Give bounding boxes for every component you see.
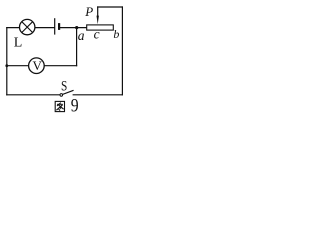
svg-text:P: P <box>84 4 93 19</box>
svg-text:S: S <box>61 77 67 94</box>
svg-text:V: V <box>33 58 43 73</box>
svg-text:L: L <box>14 36 23 51</box>
svg-text:b: b <box>113 27 119 41</box>
svg-text:c: c <box>94 27 100 42</box>
svg-text:9: 9 <box>71 95 79 115</box>
svg-text:a: a <box>78 28 85 43</box>
